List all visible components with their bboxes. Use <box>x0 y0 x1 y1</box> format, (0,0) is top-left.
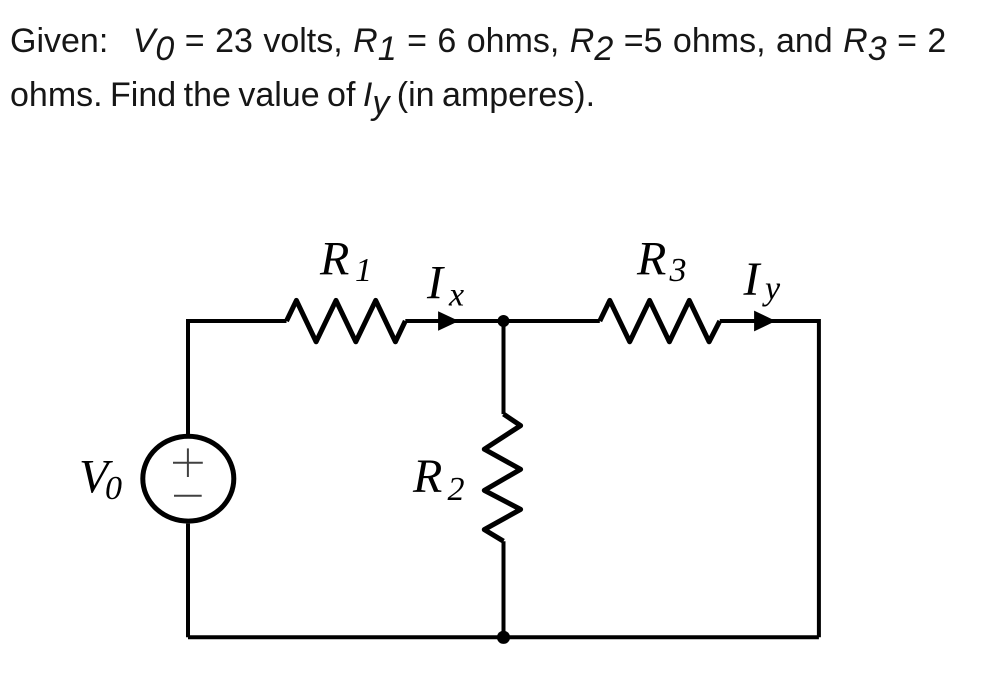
svg-text:1: 1 <box>355 252 372 289</box>
wire: V0 bottom lead <box>186 524 190 638</box>
node A junction dot (top) <box>498 315 510 327</box>
voltage source plus sign <box>173 448 203 477</box>
svg-text:I: I <box>743 253 762 306</box>
svg-text:y: y <box>762 271 781 308</box>
wire: V0 top lead, top-left corner, run to R1 <box>188 321 287 434</box>
resistor R2 <box>484 414 520 541</box>
wire: R1 to node A <box>405 319 503 323</box>
wire: node A to R3 <box>504 319 600 323</box>
current arrow Ix <box>438 311 459 331</box>
wire: bottom horizontal <box>188 635 819 639</box>
svg-text:3: 3 <box>669 252 687 289</box>
svg-text:I: I <box>426 257 445 310</box>
current arrow Iy <box>754 311 776 332</box>
wire: R3 to top-right corner and right vertical <box>720 321 819 637</box>
svg-text:R: R <box>319 233 349 286</box>
resistor R1 <box>287 300 406 341</box>
voltage source V0 circle <box>143 436 234 521</box>
svg-text:2: 2 <box>448 471 465 508</box>
svg-text:R: R <box>636 233 666 286</box>
svg-text:x: x <box>448 277 464 314</box>
problem statement text <box>10 22 946 61</box>
node B junction dot (bottom) <box>497 631 510 644</box>
wire: R2 down to node B <box>502 541 506 637</box>
svg-text:0: 0 <box>105 470 122 507</box>
voltage source minus sign <box>174 495 202 497</box>
wire: node A down to R2 <box>502 321 506 414</box>
svg-text:R: R <box>412 450 442 503</box>
resistor R3 <box>600 300 720 341</box>
